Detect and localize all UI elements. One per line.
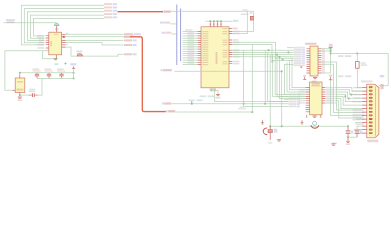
junction dot y126 x270 xyxy=(269,125,271,127)
wire descend x243 xyxy=(244,50,289,106)
gray label near x355 y123 xyxy=(356,123,364,125)
VCC supply symbol mid-right xyxy=(329,75,333,80)
U1 inside name text xyxy=(54,34,59,36)
wire U4 weave r4 xyxy=(335,94,363,101)
fan junction dots xyxy=(276,54,280,58)
wire fan to U4 r2 xyxy=(290,60,306,89)
crystal Q1 blue mark xyxy=(250,12,252,14)
U2 inside part text vertical xyxy=(216,52,218,64)
wire C4 left to U5 bottom xyxy=(20,94,29,96)
resistor R1 label xyxy=(361,62,368,66)
crystal cap C4 label xyxy=(29,89,36,92)
wire row54 xyxy=(232,54,293,56)
wire descend x274 xyxy=(275,57,288,95)
label row3 x104 xyxy=(104,10,117,12)
capacitor C8 bottom stub xyxy=(356,134,358,138)
wire U1 right w1 xyxy=(66,33,124,35)
junction dot caps bottom xyxy=(347,136,349,138)
junction dots mid region xyxy=(268,49,290,62)
U2 agnd teal text 1 xyxy=(200,95,207,97)
label mid row4 xyxy=(124,44,137,46)
label end of red wire B xyxy=(166,110,175,112)
X1 red name right xyxy=(380,84,383,89)
wire row56 xyxy=(232,56,293,58)
+5V blue text xyxy=(70,63,76,65)
U4 inside part text red xyxy=(312,83,320,85)
bottom label stack x288 xyxy=(289,94,300,108)
label row1 x104 xyxy=(104,3,117,5)
wire fan to U4 r6 xyxy=(280,57,306,99)
capacitor C3 on rail xyxy=(59,73,63,79)
bus B1 xyxy=(176,5,178,66)
X1 inner line xyxy=(375,86,377,136)
wire net row y112 xyxy=(176,111,253,113)
wire stub row64 xyxy=(285,63,294,65)
blue marks right weave xyxy=(361,109,364,120)
IC U2 main body xyxy=(201,27,229,88)
U5 top pin xyxy=(19,74,21,78)
wire U1 right w5 via diode xyxy=(66,47,124,56)
capacitor C2 label xyxy=(45,68,53,71)
U2 left pin name labels gray column xyxy=(185,29,194,64)
label net y71 left xyxy=(161,69,172,71)
U2 left pins xyxy=(198,32,201,65)
junction dot y71 x281 xyxy=(281,70,283,72)
gnd left red T xyxy=(331,144,335,145)
U4 bottom corner pin right xyxy=(320,115,322,118)
diode D1 xyxy=(77,54,83,56)
blue mark above connector xyxy=(380,75,385,77)
capacitor C7 blue mark xyxy=(351,131,353,134)
U4 bottom corner pin left xyxy=(306,115,308,118)
gray text near y75 xyxy=(338,75,351,77)
label mid-bottom row1 xyxy=(162,102,171,104)
U2 bottom junction dots xyxy=(211,90,216,92)
U4 left pins xyxy=(306,88,310,112)
wire descend x265 xyxy=(264,50,266,103)
label mid row2 xyxy=(124,35,134,37)
wire fan to U4 r5 xyxy=(277,55,306,97)
wire U4 weave r6 xyxy=(335,99,363,109)
capacitor C2 on rail xyxy=(47,73,51,79)
junction dot supply tap xyxy=(191,103,193,105)
X1 left pins xyxy=(362,88,367,134)
IC U1 body xyxy=(49,32,62,55)
U3 ground symbol below xyxy=(313,78,317,79)
jumper SJ1 top circle xyxy=(313,121,317,125)
capacitor C7 plates xyxy=(346,131,351,134)
wire to gnd left xyxy=(333,113,335,144)
wire row52 xyxy=(232,51,293,53)
+5V supply vertical xyxy=(73,69,75,79)
U1 top pin xyxy=(56,26,58,32)
wire gnd long y99 xyxy=(214,100,289,102)
U2 right pin labels gray xyxy=(233,31,240,65)
capacitor C8 blue mark xyxy=(360,131,362,134)
capacitor C8 riser wire xyxy=(357,126,362,131)
bus B2 xyxy=(180,9,182,62)
resistor R1 vertical xyxy=(356,53,358,75)
wire U3 row62 right xyxy=(322,62,363,110)
microphone gnd symbol xyxy=(277,140,281,141)
wire U4 weave r7 xyxy=(335,101,363,118)
rail junction dots xyxy=(19,72,75,96)
+5V red tick xyxy=(72,67,75,69)
label mid row1 xyxy=(124,33,141,35)
U2 inside pin name columns xyxy=(202,28,227,65)
U3 ground text xyxy=(312,81,317,83)
U3 left pins xyxy=(307,49,311,73)
label bus net 3 xyxy=(162,32,172,34)
capacitor C7 gnd bar xyxy=(346,141,350,142)
U1 pin1 blue mark xyxy=(66,33,68,35)
cap rail bottom wire y78.4 xyxy=(37,77,74,79)
U1 right pins xyxy=(62,34,66,47)
junction dot y126 x281 xyxy=(281,125,283,127)
wire stub row106 xyxy=(284,94,289,99)
U2 ground text xyxy=(216,97,221,99)
wire fan to U4 r3 xyxy=(287,62,306,92)
U1 inside part text vertical xyxy=(50,41,52,47)
U2 bottom gnd wire xyxy=(212,90,219,101)
wire net L3 xyxy=(27,12,104,41)
wire connector row 87 xyxy=(357,76,362,88)
capacitor C7 fill xyxy=(346,131,350,133)
capacitor C7 stubs xyxy=(347,126,349,141)
U5 ground symbol xyxy=(18,97,22,98)
U2 left pin stubs to bus xyxy=(183,32,198,65)
label stack x293 right of U2 wires xyxy=(294,47,305,66)
label net far-left red xyxy=(7,21,15,23)
U4 right pin labels xyxy=(326,87,334,104)
jumper SJ1 red arc xyxy=(311,125,319,128)
U2 bottom pins red xyxy=(210,88,217,91)
supply tap teal text 1 xyxy=(189,99,195,101)
crystal Q1 gray label xyxy=(241,9,249,15)
U4 right pins xyxy=(322,88,326,103)
capacitor C8 fill xyxy=(355,131,359,133)
U5 ground text xyxy=(17,99,22,101)
weave junction dots xyxy=(344,94,352,100)
wire row50 xyxy=(232,49,293,51)
wire stub label2 to bus xyxy=(171,23,177,25)
wire U4 weave r5 xyxy=(335,96,363,105)
U1 ground text xyxy=(54,63,58,65)
capacitor C1 on rail xyxy=(35,73,39,79)
microphone MK1 body xyxy=(268,130,272,133)
VCC vertical right xyxy=(322,48,363,116)
wire U4 weave r8 xyxy=(335,102,337,104)
U5 inside red marks xyxy=(17,81,24,91)
wire U1 right w4 xyxy=(66,43,124,45)
U4 left pin labels xyxy=(299,89,305,104)
thick red wire A xyxy=(118,11,164,13)
capacitor C7 gnd text xyxy=(346,143,351,145)
via marker xyxy=(64,62,66,64)
connector X1 body (D-sub) xyxy=(367,84,379,138)
VCC label teal right xyxy=(233,20,239,22)
wire VCC to U1 top xyxy=(4,22,57,24)
wire descend x270 xyxy=(269,55,271,127)
junction dot y53 x357 xyxy=(356,53,358,55)
label row2 x104 xyxy=(104,7,117,9)
wire long right y53 xyxy=(331,53,389,85)
wire C4 right up xyxy=(38,78,42,95)
X1 title above gray xyxy=(361,80,373,82)
wire fan to U4 r4 xyxy=(285,64,306,94)
resistor R1 body xyxy=(356,62,360,69)
U1 left pins xyxy=(46,36,49,51)
label net far-left blue xyxy=(6,19,15,21)
wire U4 weave r3 xyxy=(335,92,363,98)
diode D1 label teal xyxy=(76,51,82,53)
gray text pair below y53 wire xyxy=(338,55,351,57)
label row4 x104 xyxy=(104,13,117,15)
wire from U1 pin to U5 xyxy=(5,51,56,91)
junction dot y103.7 x243 xyxy=(243,103,245,105)
wire U1 right w2 xyxy=(66,36,125,38)
U2 right pin VCC red text xyxy=(233,28,238,30)
wire U2 right row42 staircase xyxy=(232,42,293,58)
capacitor C8 plates xyxy=(355,131,360,134)
X1 pads xyxy=(369,87,372,134)
gray labels right weave xyxy=(353,109,362,120)
small gnd glyph A xyxy=(261,120,264,124)
IC U3 right-top body xyxy=(310,46,318,76)
U1 bottom pin xyxy=(55,55,57,59)
wire U3 row64 right xyxy=(322,64,363,112)
U1 right pin junction red dot xyxy=(63,36,65,38)
VCC wire above U2 xyxy=(206,20,233,22)
U1 left pin labels gray xyxy=(37,35,44,49)
U5 bottom pin xyxy=(19,93,21,96)
wire into U4 top-left xyxy=(292,58,306,87)
junction dots vcc vertical xyxy=(330,48,332,54)
wire U1 right w3 xyxy=(66,39,124,41)
wire descend x272 xyxy=(273,55,289,97)
U3 right pin numbers red smudge xyxy=(322,48,325,73)
VCC symbol right top xyxy=(329,44,333,48)
capacitor C1 label xyxy=(33,68,41,71)
X1 gray pin labels left xyxy=(352,87,362,130)
wire caps bottom link xyxy=(348,136,357,138)
small gnd glyph B xyxy=(301,120,304,124)
U1 pin blue mark 2 xyxy=(66,44,68,46)
U2 top pins xyxy=(210,22,221,27)
U3 title gray above xyxy=(305,43,317,45)
red junction dot x301 xyxy=(300,66,302,68)
U5 left pin xyxy=(12,89,15,91)
wire net L1 top-left nested xyxy=(21,5,104,45)
gray text C label near x238 xyxy=(238,106,246,109)
wire net L5 xyxy=(33,18,104,36)
wire U4 weave r1 xyxy=(335,88,363,92)
crystal circuit wires xyxy=(171,11,254,33)
wire U3 right rows to vcc vertical xyxy=(322,49,331,51)
wire descend x268 xyxy=(268,52,289,101)
U2 right pins xyxy=(229,28,232,63)
microphone blue label xyxy=(274,129,277,133)
X1 red text below xyxy=(367,140,378,143)
crystal cap C4 xyxy=(29,93,39,97)
microphone MK1 arc xyxy=(263,128,267,135)
wire net L2 xyxy=(24,9,104,43)
wire net L4 xyxy=(30,15,104,38)
VCC supply above U4 left xyxy=(303,75,306,79)
supply tap red tick xyxy=(191,101,193,103)
U2 top pin number smudge xyxy=(209,23,222,25)
microphone MK1 stub and gnd xyxy=(269,126,271,140)
thick red wire B xyxy=(130,37,166,112)
wire U2 right row44 staircase xyxy=(232,45,293,61)
vcc rail y72.8 xyxy=(20,72,74,74)
supply tap teal text 2 xyxy=(197,99,203,101)
gnd left red text xyxy=(332,143,337,145)
U3 right pins xyxy=(318,49,322,73)
label USB+ end of red wire A xyxy=(161,11,170,13)
regulator U5 body xyxy=(15,78,25,93)
crystal Q1 symbol xyxy=(250,16,253,20)
junction dot caps xyxy=(347,125,349,127)
label row5 x104 xyxy=(104,16,117,18)
capacitor C3 label xyxy=(57,68,65,71)
U1 top VCC symbol xyxy=(54,23,59,25)
wire connector rows lower xyxy=(355,119,362,133)
IC U4 right-bottom body xyxy=(310,82,322,115)
microphone gnd text xyxy=(268,142,272,143)
wire long net y71 xyxy=(175,71,282,126)
label mid row3 xyxy=(124,39,137,41)
junction dot y112 x252 xyxy=(251,111,253,113)
U2 ground symbol xyxy=(216,95,220,96)
wire descend x252b xyxy=(251,45,253,113)
VCC wire junction dots xyxy=(209,20,222,22)
wire stub label3 to bus xyxy=(172,33,177,35)
wire stub row47 xyxy=(287,47,294,49)
U4 ground below xyxy=(313,116,317,117)
wire U4 weave r2 xyxy=(335,90,363,95)
U2 agnd teal text 2 xyxy=(208,95,215,97)
wire gnd bottom long y126 xyxy=(270,125,348,127)
label bus net 2 xyxy=(160,22,170,24)
label mid row5 xyxy=(124,53,137,55)
wire net row y103.7 xyxy=(172,103,289,105)
U1 ground symbol xyxy=(53,59,57,60)
